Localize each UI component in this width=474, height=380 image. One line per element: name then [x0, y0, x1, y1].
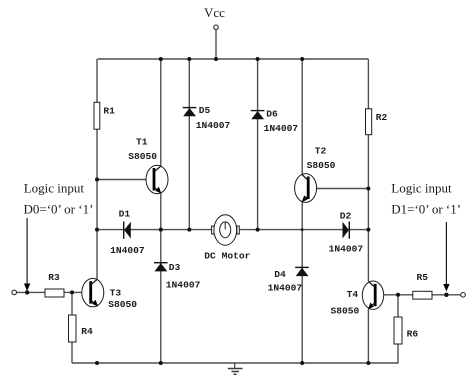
wire: R6 branch — [397, 295, 399, 363]
label D2 value 1N4007 — [329, 244, 364, 255]
label R2 — [376, 112, 388, 123]
label T2 value S8050 — [307, 160, 336, 171]
svg-text:T2: T2 — [315, 145, 327, 156]
wire: D5 column — [188, 59, 190, 230]
label D0 = '0' or '1' — [24, 202, 94, 217]
svg-text:1N4007: 1N4007 — [264, 123, 299, 134]
svg-text:R3: R3 — [48, 272, 60, 283]
svg-text:D1=‘0’ or ‘1’: D1=‘0’ or ‘1’ — [391, 202, 461, 217]
node: D5 / top rail — [187, 57, 191, 61]
node: D5 / middle rail — [187, 228, 191, 232]
label DC Motor — [204, 251, 250, 262]
wire: D6 column — [257, 59, 259, 230]
label T4 value S8050 — [331, 306, 360, 317]
svg-text:1N4007: 1N4007 — [110, 245, 145, 256]
svg-text:S8050: S8050 — [108, 299, 137, 310]
label Logic input (left) — [24, 181, 85, 196]
wire: Vcc stub — [215, 30, 217, 60]
wire: left logic input row — [17, 291, 91, 293]
node: T1 emitter / middle rail — [159, 228, 163, 232]
wire: bottom ground rail — [72, 362, 399, 364]
node: R4 branch / input row — [70, 290, 74, 294]
svg-text:T3: T3 — [110, 287, 122, 298]
label T4 — [347, 289, 359, 300]
node: left column / middle rail — [95, 228, 99, 232]
label D1 value 1N4007 — [110, 245, 145, 256]
node: left arrow / input row — [25, 290, 29, 294]
label D4 — [274, 269, 286, 280]
ground — [228, 363, 243, 374]
svg-text:T1: T1 — [136, 136, 148, 147]
label T2 — [315, 145, 327, 156]
wire: right logic input row — [376, 294, 461, 296]
svg-text:R1: R1 — [103, 105, 115, 116]
wire: T2 collector / D4 column — [301, 59, 303, 363]
svg-text:R6: R6 — [407, 329, 419, 340]
transistor T4 (S8050 NPN, base right) — [362, 281, 383, 309]
label R5 — [417, 272, 429, 283]
label D3 — [169, 262, 181, 273]
label D1 — [119, 209, 131, 220]
svg-text:D0=‘0’ or ‘1’: D0=‘0’ or ‘1’ — [24, 202, 94, 217]
svg-text:Vcc: Vcc — [204, 5, 225, 20]
diode D4 — [295, 267, 309, 276]
left input terminal circle — [12, 290, 17, 295]
svg-text:R4: R4 — [81, 326, 93, 337]
svg-text:Logic input: Logic input — [391, 181, 452, 196]
label D3 value 1N4007 — [166, 279, 201, 290]
svg-text:1N4007: 1N4007 — [196, 120, 231, 131]
svg-text:R2: R2 — [376, 112, 388, 123]
wire: T1 collector-emitter column — [160, 59, 162, 363]
svg-text:T4: T4 — [347, 289, 359, 300]
wire: right column (R2 / T2 base / T4 collector) — [367, 59, 369, 363]
svg-text:1N4007: 1N4007 — [329, 244, 364, 255]
resistor R1 — [94, 102, 100, 129]
diode D1 — [124, 222, 131, 239]
node: T1 collector / top rail — [159, 57, 163, 61]
DC motor M — [212, 215, 240, 245]
label D4 value 1N4007 — [268, 283, 303, 294]
wire: middle motor rail right part — [240, 229, 369, 231]
wire: left column (R1 / T1 base / T3 collector) — [96, 59, 98, 279]
node: right column / middle rail — [366, 228, 370, 232]
label D2 — [340, 210, 352, 221]
label D1 = '0' or '1' — [391, 202, 461, 217]
label D5 value 1N4007 — [196, 120, 231, 131]
svg-text:D5: D5 — [199, 105, 211, 116]
label T3 value S8050 — [108, 299, 137, 310]
resistor R2 — [366, 109, 372, 135]
resistor R4 — [69, 315, 77, 342]
diode D2 — [343, 222, 350, 239]
label D6 value 1N4007 — [264, 123, 299, 134]
node: T2 base / right column — [366, 187, 370, 191]
svg-text:S8050: S8050 — [128, 151, 157, 162]
wire: R4 branch — [71, 292, 73, 363]
node: D3 / bottom rail — [159, 361, 163, 365]
label T3 — [110, 287, 122, 298]
node: R6 branch / input row — [396, 293, 400, 297]
transistor T2 (S8050 NPN, base right) — [295, 174, 317, 203]
label T1 — [136, 136, 148, 147]
node: Vcc stub / top rail — [214, 57, 218, 61]
svg-text:S8050: S8050 — [307, 160, 336, 171]
label R4 — [81, 326, 93, 337]
label D6 — [266, 109, 278, 120]
svg-text:1N4007: 1N4007 — [268, 283, 303, 294]
Vcc terminal circle — [214, 25, 219, 30]
resistor R3 — [45, 289, 64, 297]
node: right arrow / input row — [444, 293, 448, 297]
node: T1 base / left column — [95, 178, 99, 182]
label Logic input (right) — [391, 181, 452, 196]
left input arrow — [24, 218, 30, 291]
svg-text:DC Motor: DC Motor — [204, 251, 250, 262]
transistor T1 (S8050 NPN, base left) — [146, 165, 168, 194]
svg-text:1N4007: 1N4007 — [166, 279, 201, 290]
node: D6 / top rail — [256, 57, 260, 61]
node: T2 emitter / middle rail — [301, 228, 304, 231]
diode D6 — [251, 111, 265, 120]
right input arrow — [443, 222, 449, 292]
label R6 — [407, 329, 419, 340]
svg-text:R5: R5 — [417, 272, 429, 283]
svg-text:D2: D2 — [340, 210, 352, 221]
svg-text:D6: D6 — [266, 109, 278, 120]
svg-text:D4: D4 — [274, 269, 286, 280]
label D5 — [199, 105, 211, 116]
node: T4 emitter / bottom rail — [366, 361, 370, 365]
label Vcc — [204, 5, 225, 20]
resistor R6 — [394, 317, 402, 344]
node: D6 / middle rail — [256, 228, 260, 232]
node: T2 collector / top rail — [300, 57, 304, 61]
node: D4 / bottom rail — [300, 361, 304, 365]
wire: top Vcc rail — [98, 58, 369, 60]
label R3 — [48, 272, 60, 283]
wire: middle motor rail — [97, 229, 212, 231]
right input terminal circle — [461, 293, 466, 298]
svg-text:D1: D1 — [119, 209, 131, 220]
node: T3 emitter / bottom rail — [95, 361, 99, 365]
svg-text:D3: D3 — [169, 262, 181, 273]
label R1 — [103, 105, 115, 116]
wire: T1 base wire — [97, 179, 154, 181]
label T1 value S8050 — [128, 151, 157, 162]
svg-text:S8050: S8050 — [331, 306, 360, 317]
diode D3 — [154, 263, 168, 272]
svg-text:Logic input: Logic input — [24, 181, 85, 196]
transistor T3 (S8050 NPN, base left) — [82, 278, 104, 306]
wire: T2 base wire — [308, 188, 368, 190]
diode D5 — [183, 108, 197, 117]
resistor R5 — [413, 291, 432, 299]
